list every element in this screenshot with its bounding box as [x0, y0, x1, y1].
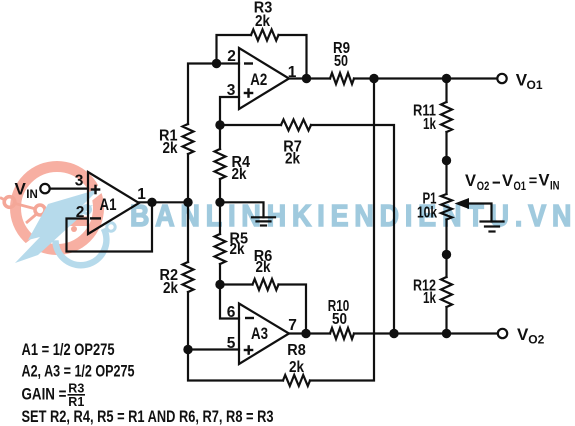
svg-text:50: 50	[334, 53, 348, 70]
logo blue pad small	[83, 206, 91, 214]
logo salmon dot	[71, 226, 77, 232]
logo ring	[16, 167, 99, 250]
wire R12 top	[445, 255, 447, 278]
svg-text:1k: 1k	[423, 116, 436, 133]
terminal VO1	[497, 74, 506, 83]
wire A3 pin6	[220, 285, 239, 319]
svg-text:R3: R3	[68, 382, 84, 396]
op-amp A1	[88, 172, 139, 234]
wire P1 bottom	[445, 220, 447, 255]
logo pad trace A-B	[15, 204, 34, 209]
wire R8 right branch up to VO1	[310, 79, 374, 381]
schematic wires and symbols	[50, 30, 504, 387]
resistor R1	[183, 124, 194, 154]
svg-text:BANLINHKIENDIENTU.VN: BANLINHKIENDIENTU.VN	[130, 199, 575, 233]
logo pad B trace	[26, 215, 36, 224]
op-amp A2	[239, 48, 289, 109]
svg-text:5: 5	[227, 335, 236, 352]
node VO1/R11 junction	[442, 74, 451, 83]
wire R3 left branch	[217, 35, 252, 64]
node A3 output junction	[301, 329, 310, 338]
svg-text:A2: A2	[250, 71, 267, 89]
svg-text:2k: 2k	[289, 359, 304, 376]
svg-text:O2: O2	[477, 181, 490, 193]
resistor R3	[251, 30, 279, 41]
logo blue pad	[107, 223, 115, 231]
node VO2/R12 junction	[442, 329, 451, 338]
wire P1 wiper to ground	[468, 204, 492, 222]
equation VO2-VO1=VIN	[465, 172, 560, 194]
wire R4 bottom	[219, 179, 221, 202]
svg-text:V: V	[465, 172, 476, 190]
svg-text:2k: 2k	[255, 13, 270, 30]
svg-text:2k: 2k	[230, 241, 245, 258]
node A1 feedback junction	[147, 198, 156, 207]
op-amp input polarity signs	[90, 64, 254, 355]
wire A3 output to R10	[289, 332, 330, 334]
node A2 pin2 junction	[212, 59, 221, 68]
resistor R6	[253, 279, 279, 290]
svg-text:3: 3	[75, 172, 84, 189]
svg-text:6: 6	[227, 304, 236, 321]
wire R7 to VO2 line	[311, 125, 394, 334]
wire R2 top	[187, 202, 189, 262]
node VO1/R8 junction	[369, 74, 378, 83]
node R1/R2 junction	[183, 198, 192, 207]
svg-text:GAIN =: GAIN =	[22, 385, 67, 404]
watermark logo (background)	[0, 167, 115, 266]
svg-text:A2, A3 = 1/2 OP275: A2, A3 = 1/2 OP275	[22, 362, 135, 381]
svg-text:50: 50	[332, 311, 347, 328]
wire VO2 line	[354, 332, 498, 334]
A1 minus	[90, 217, 101, 219]
resistor R2	[183, 262, 194, 292]
svg-text:1k: 1k	[423, 290, 436, 307]
A1 plus	[91, 188, 101, 190]
node A2 output junction	[302, 74, 311, 83]
node R4/R5 ground junction	[215, 198, 224, 207]
svg-text:SET R2, R4, R5 = R1 AND R6, R7: SET R2, R4, R5 = R1 AND R6, R7, R8 = R3	[22, 407, 274, 426]
svg-text:A1: A1	[100, 196, 117, 214]
A2 plus	[244, 92, 254, 94]
wire A2 pin2 stub	[217, 62, 240, 64]
P1 wiper arrowhead	[455, 198, 470, 209]
node VO2/R7 junction	[389, 329, 398, 338]
wire R7 line left	[220, 124, 281, 126]
wire A1 output to node B	[139, 201, 188, 203]
wire R2 bottom	[187, 292, 189, 350]
logo slash cut	[6, 178, 114, 264]
A3 minus	[245, 317, 254, 319]
node A2 pin3 junction	[215, 120, 224, 129]
svg-text:O2: O2	[528, 333, 544, 347]
node R5/R6 junction	[215, 280, 224, 289]
svg-text:R8: R8	[287, 342, 306, 359]
wire node pin2 to R1	[188, 64, 217, 125]
logo blue arc	[55, 229, 106, 266]
svg-text:3: 3	[227, 82, 236, 99]
svg-text:2k: 2k	[285, 151, 300, 168]
resistor R7	[281, 120, 311, 131]
svg-text:V: V	[539, 172, 550, 190]
wire A1 feedback loop	[67, 202, 153, 251]
wire P1 top	[445, 161, 447, 195]
resistor R11	[441, 102, 452, 132]
ground G2	[481, 220, 504, 222]
wire R12 bottom	[445, 307, 447, 334]
wire R5 bottom	[219, 264, 221, 285]
resistor R9	[330, 73, 354, 84]
resistor R4	[215, 149, 226, 179]
svg-text:2k: 2k	[163, 140, 178, 157]
svg-text:V: V	[15, 180, 27, 199]
wire R5 top	[219, 202, 221, 234]
wire A2 pin3 stub	[220, 97, 239, 125]
potentiometer P1	[441, 194, 452, 220]
ground G1	[252, 216, 275, 218]
svg-text:2k: 2k	[232, 166, 247, 183]
logo blue Z	[15, 189, 99, 263]
wire R11 bottom	[445, 132, 447, 161]
wire VO1 line	[354, 77, 497, 79]
resistor R8	[283, 375, 310, 386]
A3 plus	[244, 349, 254, 351]
svg-text:A1 = 1/2 OP275: A1 = 1/2 OP275	[22, 340, 115, 359]
terminal VO2	[498, 329, 507, 338]
wire ground stub	[220, 202, 264, 217]
wire R8 left branch	[188, 350, 283, 381]
svg-text:=: =	[529, 174, 537, 190]
svg-text:V: V	[502, 172, 513, 190]
logo pad A	[4, 197, 15, 208]
wire R6 left	[220, 283, 253, 285]
svg-text:2: 2	[76, 204, 85, 221]
A2 minus	[244, 62, 253, 64]
svg-text:2k: 2k	[163, 280, 178, 297]
wire R11 top	[445, 79, 447, 103]
logo trace left edge to pad A	[0, 198, 5, 201]
wire R3 right branch	[279, 35, 307, 79]
resistor R10	[330, 328, 354, 339]
svg-text:O1: O1	[514, 181, 527, 193]
svg-text:V: V	[517, 325, 529, 344]
node A3 pin5 junction	[183, 345, 192, 354]
wire R1 to node B	[187, 154, 189, 202]
svg-text:IN: IN	[26, 189, 38, 201]
svg-text:IN: IN	[550, 181, 560, 193]
logo ring crossbar	[55, 217, 89, 227]
node P1/R12 junction	[442, 250, 451, 259]
svg-text:O1: O1	[527, 78, 543, 92]
wire A2 output to R9	[289, 77, 330, 79]
svg-text:1: 1	[288, 64, 297, 81]
svg-text:A3: A3	[251, 325, 268, 343]
op-amp A3	[239, 304, 289, 365]
logo pad B	[35, 205, 45, 215]
terminal VIN	[40, 184, 49, 193]
resistor R12	[441, 277, 452, 307]
svg-text:2k: 2k	[256, 259, 271, 276]
svg-text:7: 7	[288, 317, 297, 334]
wire R4 top	[219, 125, 221, 149]
node R11/P1 junction	[442, 156, 451, 165]
svg-text:2: 2	[227, 48, 236, 65]
wire A3 pin5	[188, 348, 239, 350]
wire VIN to A1 pin3	[50, 188, 88, 190]
resistor R5	[215, 234, 226, 264]
wire R6 right to A3 output	[279, 285, 307, 334]
